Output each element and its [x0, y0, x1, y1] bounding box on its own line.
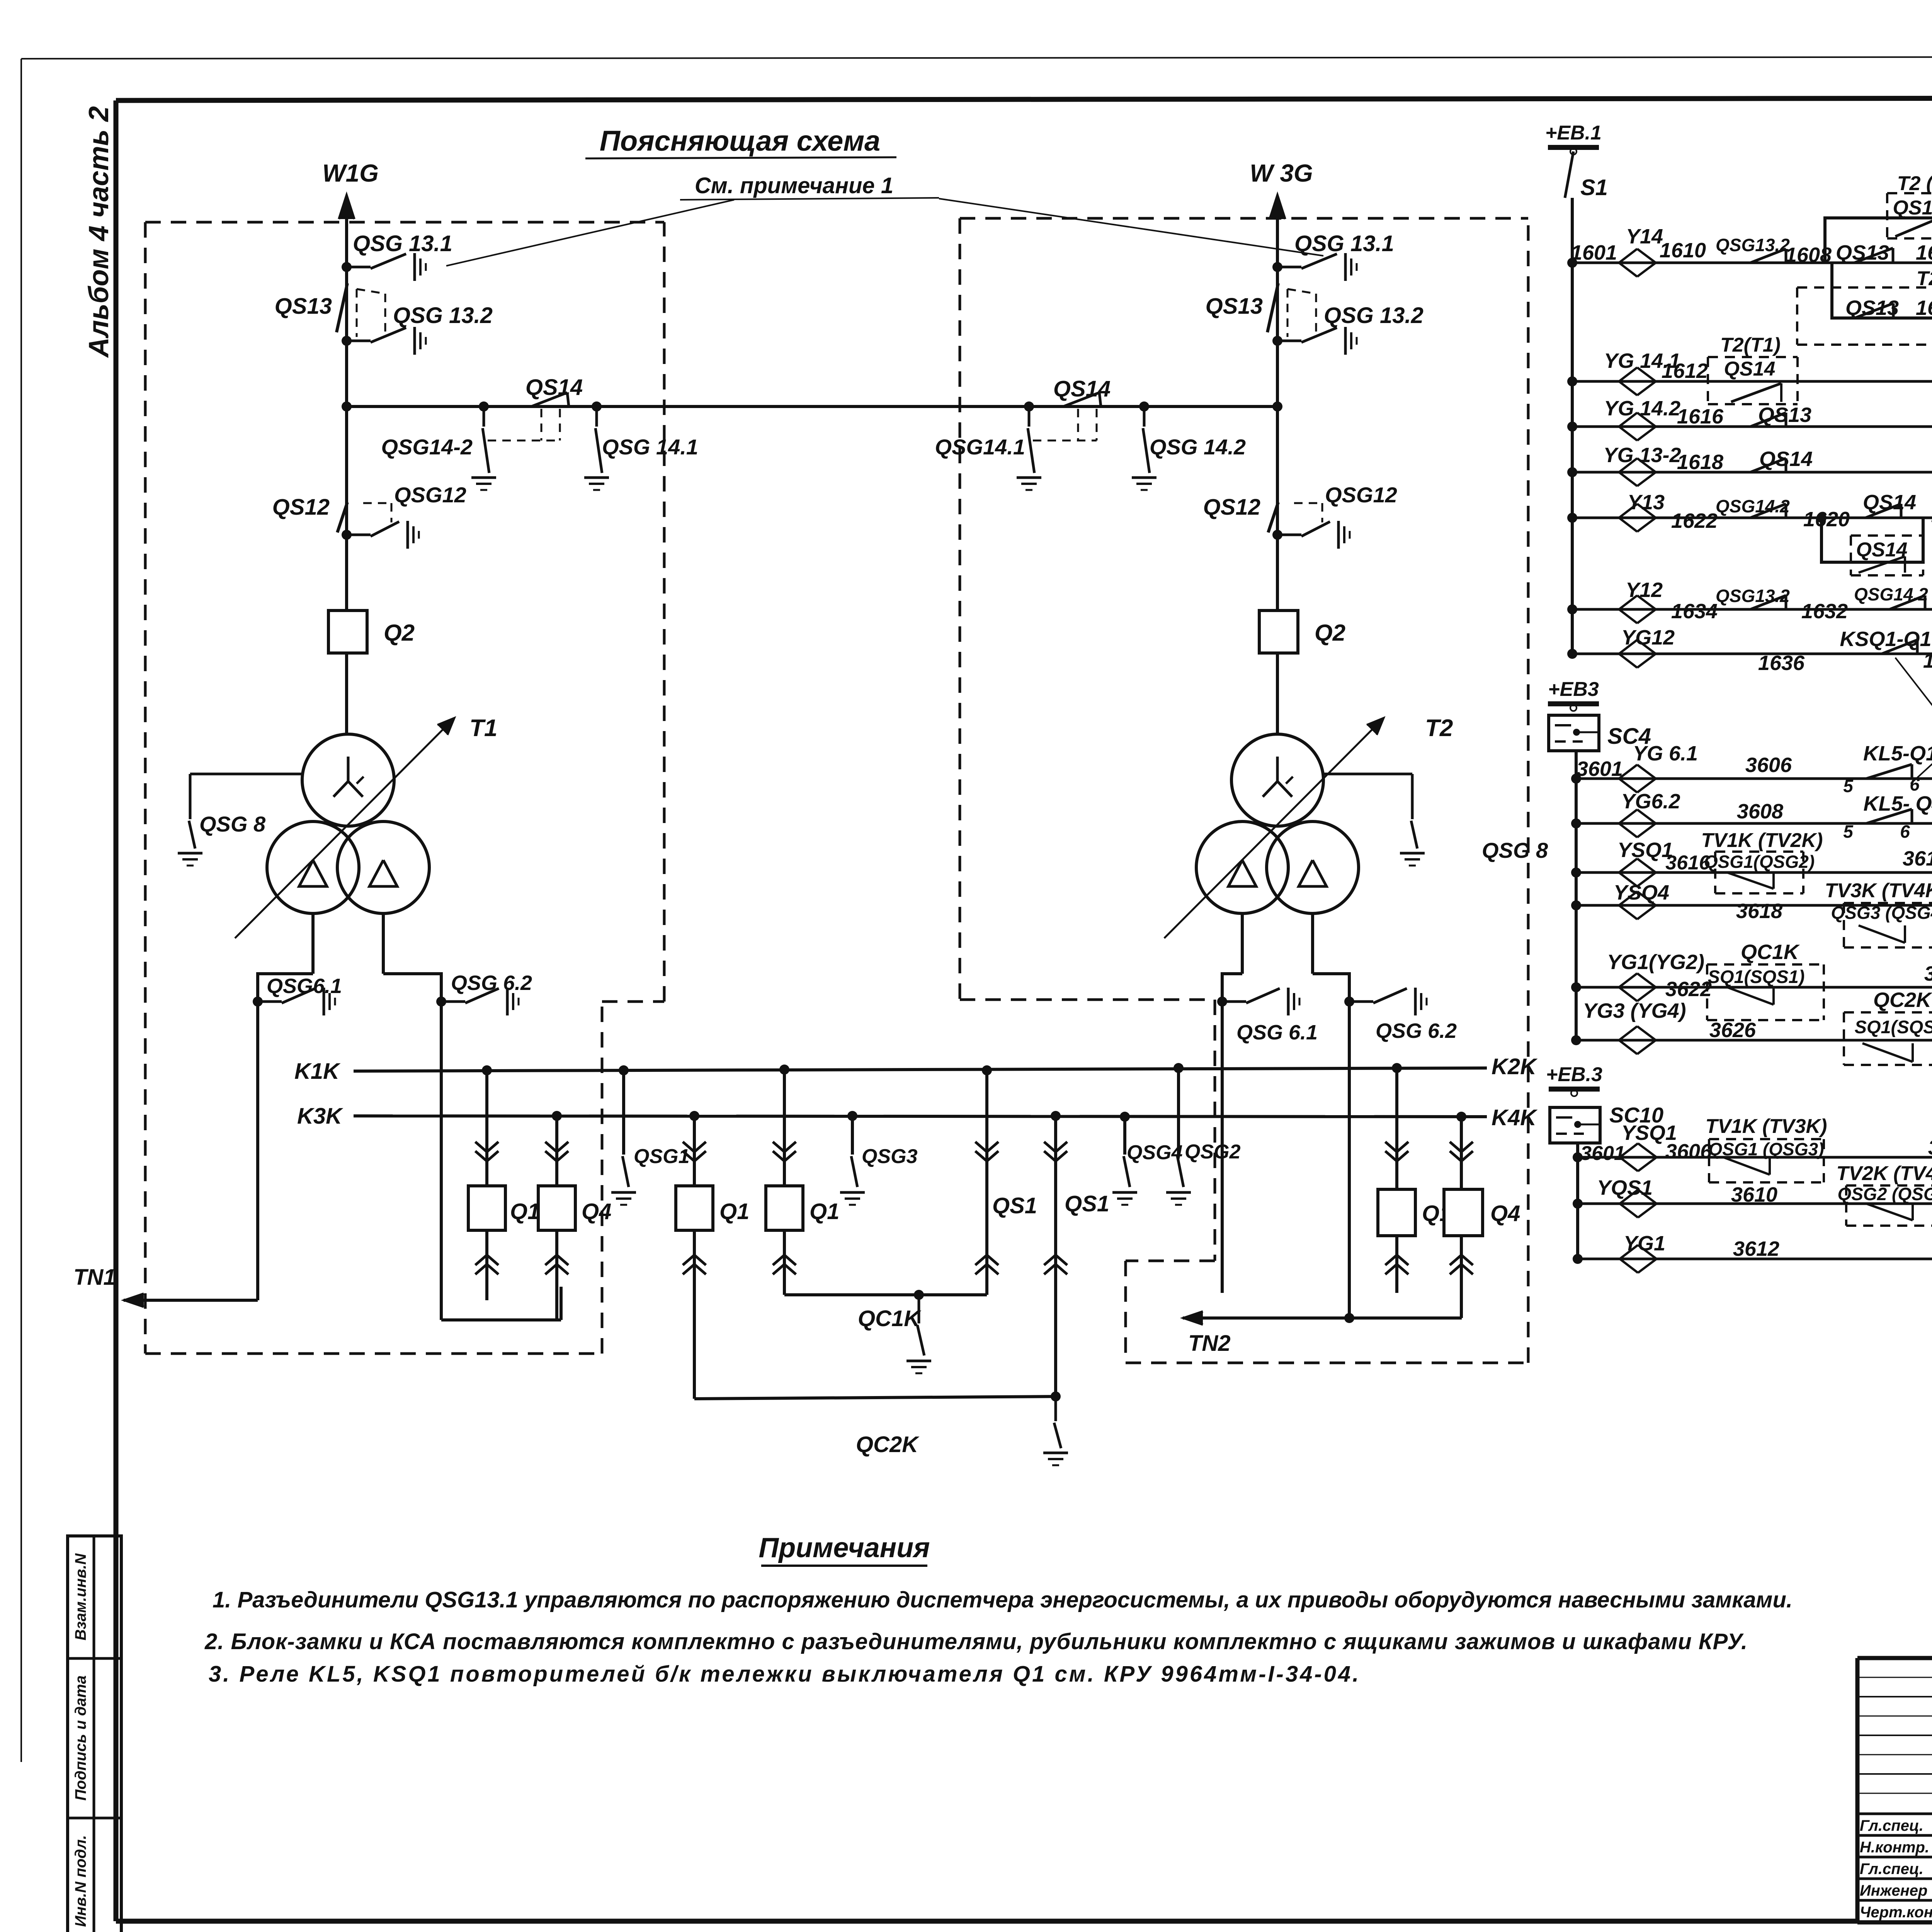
- svg-text:QSG 8: QSG 8: [199, 812, 266, 836]
- svg-text:5: 5: [1843, 776, 1854, 796]
- svg-text:QSG14.1: QSG14.1: [935, 435, 1025, 459]
- svg-text:1606: 1606: [1916, 296, 1932, 320]
- svg-text:Т2(Т1): Т2(Т1): [1930, 516, 1932, 537]
- svg-text:Q2: Q2: [1315, 620, 1345, 646]
- svg-text:Инв.N подл.: Инв.N подл.: [72, 1835, 89, 1927]
- svg-text:Q4: Q4: [1490, 1201, 1520, 1226]
- svg-text:QSG14-2: QSG14-2: [381, 435, 473, 459]
- svg-text:QSG 6.2: QSG 6.2: [451, 971, 532, 995]
- svg-text:QS12: QS12: [272, 495, 330, 520]
- svg-text:1616: 1616: [1677, 405, 1724, 428]
- svg-text:1622: 1622: [1671, 509, 1718, 532]
- svg-text:QS1: QS1: [1065, 1191, 1109, 1216]
- svg-text:Черт.конст: Черт.конст: [1860, 1904, 1932, 1921]
- svg-text:TN1: TN1: [73, 1265, 116, 1290]
- svg-text:Т2 (Т1): Т2 (Т1): [1917, 267, 1932, 290]
- svg-text:KL5-Q1: KL5-Q1: [1863, 742, 1932, 765]
- svg-text:1638: 1638: [1923, 649, 1932, 672]
- svg-text:6: 6: [1900, 821, 1910, 842]
- svg-text:Q4: Q4: [582, 1199, 611, 1224]
- svg-text:QSG13.2: QSG13.2: [1716, 235, 1790, 255]
- svg-text:5: 5: [1843, 821, 1854, 842]
- svg-text:3610: 3610: [1731, 1183, 1777, 1206]
- svg-text:Н.контр.: Н.контр.: [1860, 1839, 1929, 1856]
- svg-text:Гл.спец.: Гл.спец.: [1860, 1861, 1923, 1878]
- svg-text:3606: 3606: [1665, 1140, 1712, 1163]
- svg-text:3601: 3601: [1577, 757, 1623, 781]
- svg-text:YG3 (YG4): YG3 (YG4): [1583, 999, 1686, 1022]
- svg-text:QSG1: QSG1: [634, 1145, 690, 1168]
- svg-text:QS13: QS13: [1836, 241, 1889, 264]
- svg-text:TV1K (TV3K): TV1K (TV3K): [1706, 1115, 1827, 1138]
- svg-text:1610: 1610: [1660, 239, 1706, 262]
- svg-text:QSG4: QSG4: [1127, 1141, 1183, 1164]
- svg-text:2. Блок-замки и КСА поставляют: 2. Блок-замки и КСА поставляются комплек…: [204, 1629, 1748, 1654]
- svg-text:QSG 14.1: QSG 14.1: [602, 435, 698, 459]
- svg-text:1632: 1632: [1801, 600, 1848, 623]
- svg-text:QSG3 (QSG4): QSG3 (QSG4): [1831, 903, 1932, 923]
- svg-text:Альбом 4 часть 2: Альбом 4 часть 2: [83, 106, 114, 358]
- svg-text:1. Разъединители QSG13.1 управ: 1. Разъединители QSG13.1 управляются по …: [213, 1587, 1793, 1612]
- svg-text:QSG2 (QSG4): QSG2 (QSG4): [1837, 1184, 1932, 1204]
- svg-text:Т2 (Т1): Т2 (Т1): [1897, 172, 1932, 195]
- svg-text:QS13: QS13: [1845, 296, 1899, 320]
- svg-text:QSG 8: QSG 8: [1482, 838, 1548, 862]
- svg-text:QSG12: QSG12: [1325, 483, 1397, 507]
- svg-text:QSG3: QSG3: [862, 1145, 918, 1168]
- svg-text:Подпись и дата: Подпись и дата: [72, 1675, 89, 1801]
- svg-text:SQ1(SQS1): SQ1(SQS1): [1708, 966, 1805, 987]
- svg-text:3601: 3601: [1580, 1142, 1625, 1165]
- svg-text:YG1(YG2): YG1(YG2): [1607, 951, 1704, 974]
- svg-text:K2K: K2K: [1492, 1054, 1538, 1079]
- svg-text:QC1K: QC1K: [1741, 940, 1800, 964]
- svg-text:QS13: QS13: [1206, 294, 1263, 319]
- svg-text:3618: 3618: [1736, 900, 1782, 923]
- svg-text:QSG1 (QSG3): QSG1 (QSG3): [1708, 1139, 1824, 1159]
- svg-text:Т2(Т1): Т2(Т1): [1720, 334, 1781, 356]
- svg-text:Q2: Q2: [384, 620, 415, 646]
- svg-text:QS13: QS13: [275, 294, 332, 319]
- svg-text:QSG2: QSG2: [1185, 1141, 1241, 1163]
- svg-text:3608: 3608: [1737, 800, 1783, 823]
- svg-text:1601: 1601: [1571, 241, 1617, 264]
- svg-text:+EB.3: +EB.3: [1546, 1063, 1602, 1086]
- svg-text:TV3K (TV4K): TV3K (TV4K): [1825, 879, 1932, 902]
- svg-text:QC2K: QC2K: [1873, 988, 1932, 1012]
- svg-text:QS14: QS14: [1863, 491, 1916, 514]
- svg-text:1636: 1636: [1758, 651, 1805, 675]
- svg-text:QS14: QS14: [1893, 197, 1932, 219]
- svg-text:QSG 14.2: QSG 14.2: [1150, 435, 1246, 459]
- svg-text:Т2: Т2: [1425, 715, 1453, 742]
- svg-text:YG 6.1: YG 6.1: [1633, 742, 1698, 765]
- svg-text:YG6.2: YG6.2: [1621, 790, 1680, 813]
- svg-text:См. примечание 1: См. примечание 1: [695, 173, 893, 198]
- svg-text:QSG1(QSG2): QSG1(QSG2): [1704, 852, 1815, 872]
- svg-text:YSQ4: YSQ4: [1614, 881, 1669, 904]
- svg-text:3614: 3614: [1903, 847, 1932, 870]
- svg-text:QS13: QS13: [1758, 403, 1811, 427]
- svg-text:S1: S1: [1580, 175, 1608, 200]
- svg-text:Инженер: Инженер: [1860, 1882, 1927, 1899]
- svg-text:Q1: Q1: [810, 1199, 839, 1224]
- svg-text:Y12: Y12: [1626, 578, 1663, 602]
- svg-text:QSG14.2: QSG14.2: [1716, 496, 1790, 516]
- svg-text:QS1: QS1: [992, 1193, 1037, 1218]
- svg-text:TV2K (TV4K): TV2K (TV4K): [1837, 1162, 1932, 1185]
- svg-text:Q1: Q1: [719, 1199, 749, 1224]
- svg-text:QSG 13.2: QSG 13.2: [1324, 303, 1423, 328]
- svg-text:W 3G: W 3G: [1250, 159, 1313, 187]
- svg-text:K3K: K3K: [297, 1104, 344, 1129]
- svg-text:QSG12: QSG12: [394, 483, 466, 507]
- svg-text:QS14: QS14: [1759, 447, 1813, 471]
- svg-text:QSG 6.1: QSG 6.1: [1236, 1021, 1318, 1044]
- svg-text:W1G: W1G: [322, 159, 379, 187]
- svg-text:Поясняющая схема: Поясняющая схема: [600, 125, 880, 157]
- svg-text:QS14: QS14: [1724, 358, 1776, 380]
- svg-text:T1: T1: [469, 715, 497, 742]
- svg-text:3626: 3626: [1709, 1019, 1756, 1042]
- svg-text:QC2K: QC2K: [856, 1432, 920, 1457]
- svg-text:Примечания: Примечания: [759, 1532, 930, 1563]
- svg-text:3606: 3606: [1745, 753, 1792, 777]
- svg-text:3622: 3622: [1665, 978, 1712, 1001]
- svg-text:3620: 3620: [1924, 962, 1932, 985]
- svg-text:1634: 1634: [1671, 600, 1718, 623]
- svg-text:1620: 1620: [1803, 508, 1850, 531]
- svg-text:QS14: QS14: [1053, 376, 1111, 401]
- svg-text:QSG 6.2: QSG 6.2: [1376, 1019, 1457, 1043]
- svg-text:YSQ1: YSQ1: [1617, 838, 1673, 862]
- svg-text:K1K: K1K: [294, 1059, 341, 1084]
- svg-text:K4K: K4K: [1492, 1105, 1538, 1130]
- svg-text:Гл.спец.: Гл.спец.: [1860, 1817, 1923, 1834]
- svg-text:+EB3: +EB3: [1548, 678, 1599, 701]
- svg-text:QS14: QS14: [526, 375, 583, 400]
- svg-text:+EB.1: +EB.1: [1545, 122, 1602, 144]
- svg-text:KL5- Q4: KL5- Q4: [1863, 792, 1932, 815]
- svg-text:Q1: Q1: [510, 1199, 540, 1224]
- svg-text:3612: 3612: [1733, 1237, 1779, 1260]
- svg-text:3. Реле KL5, KSQ1 повторителей: 3. Реле KL5, KSQ1 повторителей б/к тележ…: [209, 1662, 1361, 1687]
- svg-text:1606: 1606: [1916, 241, 1932, 264]
- svg-text:QSG13.2: QSG13.2: [1716, 586, 1790, 606]
- svg-text:QSG 13.2: QSG 13.2: [393, 303, 493, 328]
- svg-text:TN2: TN2: [1188, 1331, 1231, 1356]
- svg-text:QSG6.1: QSG6.1: [267, 975, 342, 998]
- svg-text:SQ1(SQS1): SQ1(SQS1): [1855, 1017, 1932, 1037]
- svg-text:3604: 3604: [1928, 1136, 1932, 1159]
- svg-text:Взам.инв.N: Взам.инв.N: [72, 1553, 89, 1640]
- svg-text:QS12: QS12: [1203, 495, 1260, 520]
- svg-text:QSG14.2: QSG14.2: [1854, 584, 1928, 604]
- svg-text:KSQ1-Q1: KSQ1-Q1: [1840, 628, 1931, 651]
- svg-text:Y14: Y14: [1626, 225, 1663, 248]
- svg-text:1612: 1612: [1662, 359, 1708, 383]
- svg-text:1618: 1618: [1677, 451, 1723, 474]
- svg-text:QC1K: QC1K: [858, 1306, 922, 1331]
- svg-text:QSG 13.1: QSG 13.1: [1294, 231, 1394, 256]
- svg-text:TV1K (TV2K): TV1K (TV2K): [1701, 829, 1823, 852]
- svg-text:QSG 13.1: QSG 13.1: [353, 231, 452, 256]
